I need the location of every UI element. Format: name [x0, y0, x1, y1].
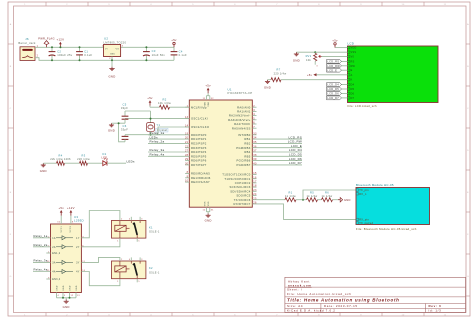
svg-text:RX_pin: RX_pin [359, 218, 369, 221]
svg-text:2A: 2A [52, 246, 56, 249]
svg-text:1k 1/4w: 1k 1/4w [322, 194, 333, 198]
pin RA4/T0CKI (6) U1 [234, 122, 256, 126]
svg-text:RV1: RV1 [306, 54, 312, 58]
pin INT/RB0 (33) U1 [238, 132, 257, 136]
svg-text:RB4: RB4 [244, 150, 250, 154]
svg-text:VDD: VDD [208, 101, 210, 106]
resistor R7 220 1/4w [271, 68, 286, 82]
svg-text:B: B [10, 66, 12, 68]
wire crystal caps ground rail [112, 122, 126, 142]
svg-text:+5v: +5v [58, 206, 64, 210]
pin RD7/PSP7 (30) U1 [185, 163, 207, 167]
driver U3 L293D body [51, 215, 84, 293]
svg-text:C5: C5 [123, 103, 127, 107]
resistor R6 1k 1/4w [322, 190, 333, 201]
svg-text:R3: R3 [82, 153, 86, 157]
wire GND to R4 [43, 162, 56, 164]
svg-text:C4: C4 [179, 49, 183, 53]
capacitor C4 0.1uF [171, 47, 187, 60]
svg-text:L293D: L293D [74, 219, 84, 223]
op-amp U1 PIC16F877A-I/P body [189, 87, 252, 207]
svg-text:PIC16F877A-I/P: PIC16F877A-I/P [228, 91, 253, 95]
pin RD5/PSP5 (28) U1 [148, 153, 207, 159]
pin 3Y (11) U3 [76, 261, 86, 265]
ground GND below U3 [63, 300, 70, 310]
svg-text:33pF: 33pF [121, 106, 128, 110]
pin PGM/RB3 (36) U1 [236, 144, 302, 150]
svg-text:D7: D7 [351, 97, 355, 100]
svg-text:D4: D4 [351, 84, 355, 87]
power +12V above U3 [67, 206, 75, 216]
svg-text:TX_pin: TX_pin [359, 189, 369, 192]
svg-text:U2: U2 [104, 37, 108, 41]
capacitor C5 33pF [121, 103, 129, 124]
global label LCD_RW at LCD [327, 64, 348, 68]
svg-text:+5v: +5v [171, 38, 177, 42]
wire +12V top rail [35, 46, 104, 48]
svg-text:3: 3 [141, 259, 142, 261]
svg-text:Date: 2023-07-15: Date: 2023-07-15 [324, 304, 358, 308]
pin RA5/AN4/SS (7) U1 [232, 126, 257, 130]
resistor R2 10k 1/4w [158, 98, 171, 110]
svg-text:RD3/PSP3: RD3/PSP3 [191, 146, 207, 150]
junction dots C1 [79, 46, 81, 61]
wire D1 to label [107, 162, 126, 164]
svg-text:Relay_4a: Relay_4a [150, 153, 165, 157]
pin 2A (7) U3 [33, 243, 56, 249]
svg-text:10: 10 [402, 315, 405, 317]
svg-text:LCD_RS: LCD_RS [327, 60, 339, 64]
capacitor C2 100uF 25v [49, 47, 73, 60]
pin RB1 (34) U1 [244, 135, 302, 141]
pin RE2/CS/AN7 (10) U1 [185, 180, 210, 184]
svg-text:SDI/SDA/RC4: SDI/SDA/RC4 [230, 189, 251, 193]
svg-text:GND: GND [205, 219, 212, 223]
svg-text:G: G [10, 276, 12, 278]
wire R7 to LCD K pin [281, 79, 348, 81]
ground GND below U1 [205, 214, 212, 223]
svg-text:RA2/AN2/Vref-: RA2/AN2/Vref- [229, 114, 251, 118]
svg-text:A: A [467, 23, 469, 26]
svg-text:RA0/AN0: RA0/AN0 [237, 105, 251, 109]
svg-text:File: Home Automation.kicad_sc: File: Home Automation.kicad_sch [287, 292, 352, 296]
wire U2 GND pin [111, 57, 113, 67]
svg-text:1k 1/4w: 1k 1/4w [307, 194, 318, 198]
power +5v above U1 [205, 84, 211, 94]
svg-text:C3: C3 [152, 49, 156, 53]
svg-text:T1OSI/CCP2/RC1: T1OSI/CCP2/RC1 [224, 177, 250, 181]
power flag PWR_FLAG [38, 37, 55, 48]
svg-text:SCK/SCL/RC3: SCK/SCL/RC3 [229, 185, 250, 189]
pin OSC1/CLKI (13) U1 [185, 116, 208, 120]
svg-text:RX_n: RX_n [359, 193, 367, 196]
svg-text:PWR_FLAG: PWR_FLAG [38, 37, 55, 41]
svg-text:+5v: +5v [147, 96, 153, 100]
wire GND to R7 [268, 79, 272, 81]
relay K1 G5LE-1 [112, 217, 160, 243]
resistor R3 220 1/4w [77, 153, 90, 165]
svg-text:VSS: VSS [351, 51, 357, 54]
svg-text:VDD: VDD [351, 47, 357, 50]
svg-text:GND: GND [69, 285, 71, 291]
title block [285, 277, 466, 312]
svg-text:OSC1/CLKI: OSC1/CLKI [191, 117, 208, 121]
wire +5v to R2 [150, 106, 160, 107]
svg-text:RB2: RB2 [244, 141, 250, 145]
global label LCD_D5 at LCD [327, 87, 348, 91]
svg-text:2: 2 [121, 259, 122, 261]
svg-text:+5v: +5v [205, 84, 211, 88]
svg-text:RX/DT/RC7: RX/DT/RC7 [234, 202, 251, 206]
svg-text:Relay_2a: Relay_2a [34, 243, 48, 247]
wire U3 2Y to K1 coil bottom [81, 238, 120, 247]
junction dots C3 [145, 46, 147, 61]
svg-text:Relay_2a: Relay_2a [150, 140, 165, 144]
wire R5 to R6 [318, 199, 322, 201]
svg-text:C: C [10, 108, 12, 110]
svg-text:LCD_D6: LCD_D6 [327, 92, 339, 96]
svg-text:LCD_D5: LCD_D5 [327, 87, 339, 91]
pin 1A (2) U3 [33, 234, 56, 240]
svg-text:GND: GND [264, 85, 271, 89]
svg-text:4A: 4A [52, 271, 56, 274]
wire RV1 wiper to LCD V0 [322, 55, 348, 57]
svg-text:10k: 10k [306, 58, 311, 62]
svg-text:1: 1 [117, 281, 118, 283]
wire U3 4Y to K2 coil bottom [81, 272, 120, 286]
relay K2 G5LE-1 [112, 257, 160, 283]
pin 4A (15) U3 [33, 268, 56, 274]
svg-text:10uF 50v: 10uF 50v [152, 53, 166, 57]
ground GND for LED chain [40, 163, 47, 173]
svg-text:D: D [10, 150, 12, 152]
svg-text:RE0/RD/AN5: RE0/RD/AN5 [191, 172, 210, 176]
svg-text:RD7/PSP7: RD7/PSP7 [191, 163, 207, 167]
pin EN1,2 (1) U3 [46, 252, 60, 256]
svg-text:LM7805_TO220: LM7805_TO220 [104, 40, 127, 44]
svg-text:1: 1 [117, 240, 118, 242]
svg-text:D: D [467, 150, 469, 152]
svg-text:5: 5 [138, 281, 139, 283]
svg-text:RD5/PSP5: RD5/PSP5 [191, 154, 207, 158]
pin PGD/RB7 (40) U1 [237, 161, 302, 167]
pin 4Y (14) U3 [76, 270, 86, 274]
ground GND for R7 [264, 80, 271, 90]
capacitor C6 33pF [121, 124, 129, 142]
global label LCD_RS at LCD [327, 60, 348, 64]
svg-text:+5v: +5v [307, 73, 313, 77]
resistor R4 22k 1/4w [50, 153, 71, 165]
svg-text:Size: A4: Size: A4 [287, 304, 303, 308]
sheet LCD [348, 41, 439, 108]
global label LCD_D6 at LCD [327, 92, 348, 96]
wire OSC2 net [125, 127, 189, 136]
svg-text:0.1uF: 0.1uF [84, 53, 92, 57]
svg-text:Relay_3a: Relay_3a [34, 259, 48, 263]
net label LEDs [127, 159, 135, 163]
svg-text:VCC2: VCC2 [70, 225, 72, 232]
svg-text:GND: GND [63, 305, 70, 309]
pin 2Y (6) U3 [76, 245, 84, 249]
potentiometer RV1 10k [306, 52, 322, 67]
svg-text:SDO/RC5: SDO/RC5 [236, 194, 250, 198]
svg-text:Relay_4a: Relay_4a [34, 268, 48, 272]
svg-text:2Y: 2Y [76, 246, 80, 249]
svg-text:Id: 1/3: Id: 1/3 [429, 309, 442, 313]
pin RE0/RD/AN5 (8) U1 [185, 171, 210, 175]
svg-text:G5LE-1: G5LE-1 [149, 230, 160, 234]
svg-text:RW: RW [351, 65, 356, 68]
pin RA0/AN0 (2) U1 [237, 105, 256, 109]
svg-text:R4: R4 [59, 153, 63, 157]
svg-text:GND: GND [108, 75, 115, 79]
svg-text:GND: GND [56, 285, 58, 291]
svg-text:B: B [467, 66, 469, 68]
svg-text:RD1/PSP1: RD1/PSP1 [191, 137, 207, 141]
power +5v above U3 [58, 206, 64, 216]
svg-text:RB5: RB5 [244, 154, 250, 158]
svg-text:22k 1/4w 1206: 22k 1/4w 1206 [50, 157, 71, 161]
pin MCLR/Vpp (1) U1 [185, 105, 207, 109]
wire U3 VCC pins [57, 216, 74, 224]
pin SCK/SCL/RC3 (18) U1 [229, 185, 256, 189]
pin RB4 (37) U1 [244, 148, 302, 154]
svg-text:RD0/PSP0: RD0/PSP0 [191, 133, 207, 137]
svg-text:LCD_E: LCD_E [327, 68, 337, 72]
svg-text:EN3,4: EN3,4 [52, 278, 60, 281]
pin T1OSO/T1CKI/RC0 (15) U1 [222, 172, 257, 176]
resistor R5 1k 1/4w [307, 190, 318, 201]
svg-text:PGM/RB3: PGM/RB3 [236, 146, 251, 150]
resistor R1 1k 1/4w [285, 190, 296, 201]
svg-text:RE1/WR/AN6: RE1/WR/AN6 [191, 176, 211, 180]
svg-text:LEDs: LEDs [127, 159, 135, 163]
svg-text:E: E [467, 192, 469, 194]
svg-text:E: E [10, 192, 12, 194]
wire divider tap to HC-05 TX [303, 190, 356, 200]
svg-text:0.1uF: 0.1uF [179, 53, 187, 57]
capacitor C1 0.1uF [76, 47, 92, 60]
global label LCD_D7 at LCD [327, 96, 348, 100]
svg-text:3A: 3A [52, 261, 56, 264]
svg-text:MCLR/Vpp: MCLR/Vpp [191, 105, 207, 109]
svg-text:VCC1: VCC1 [61, 225, 63, 232]
pin RD6/PSP6 (29) U1 [185, 158, 207, 162]
pin PGC/RB6 (39) U1 [237, 157, 302, 163]
crystal Y1 [147, 123, 168, 133]
svg-text:100uF 25v: 100uF 25v [57, 53, 73, 57]
pin VSS bottom pins U1 [203, 201, 215, 214]
wire R3 to D1 [88, 162, 103, 164]
svg-text:220 1/4w: 220 1/4w [77, 157, 90, 161]
pin RA1/AN1 (3) U1 [237, 109, 256, 113]
pin RA2/AN2/Vref- (4) U1 [229, 113, 257, 117]
svg-text:D5: D5 [351, 88, 355, 91]
svg-text:10k 1/4w: 10k 1/4w [158, 101, 171, 105]
svg-text:PGD/RB7: PGD/RB7 [237, 163, 251, 167]
wire U3 3Y to K2 coil top [81, 257, 120, 262]
svg-text:RS: RS [351, 60, 355, 63]
pin RD4/PSP4 (27) U1 [148, 148, 207, 154]
svg-text:GND: GND [344, 198, 351, 202]
svg-text:4Y: 4Y [76, 271, 80, 274]
ground GND right of R6 [338, 198, 351, 202]
svg-text:RE2/CS/AN7: RE2/CS/AN7 [191, 180, 210, 184]
svg-text:R7: R7 [277, 68, 281, 72]
svg-text:VSS: VSS [205, 201, 207, 206]
pin RD1/PSP1 (20) U1 [148, 135, 207, 141]
wire U3 1Y to K1 coil top [81, 211, 120, 238]
power +5v for MCLR pullup [147, 96, 153, 106]
svg-text:K2: K2 [149, 266, 153, 270]
svg-text:C2: C2 [57, 49, 61, 53]
pin EN3,4 (9) U3 [46, 278, 60, 282]
wire +5v to LCD VDD [335, 47, 348, 49]
svg-text:1k 1/4w: 1k 1/4w [285, 194, 296, 198]
connector J6 Barrel_Jack [18, 37, 38, 60]
wire OSC1 net [125, 111, 189, 123]
svg-text:GND: GND [108, 129, 115, 133]
svg-text:KiCad E.D.A. kicad 7.0.2: KiCad E.D.A. kicad 7.0.2 [287, 309, 336, 313]
svg-text:1Y: 1Y [76, 237, 80, 240]
pin VDD top pins U1 [203, 93, 215, 106]
svg-text:Relay_1a: Relay_1a [34, 234, 48, 238]
svg-text:RA1/AN1: RA1/AN1 [237, 109, 251, 113]
svg-text:D6: D6 [351, 92, 355, 95]
pin T1OSI/CCP2/RC1 (16) U1 [224, 176, 257, 180]
pin RD3/PSP3 (22) U1 [185, 145, 207, 149]
svg-text:CCP1/RC2: CCP1/RC2 [235, 181, 251, 185]
svg-text:R1: R1 [289, 190, 293, 194]
pin CCP1/RC2 (17) U1 [235, 181, 257, 185]
svg-text:3: 3 [141, 218, 142, 220]
pin RB5 (38) U1 [244, 153, 302, 159]
svg-text:11: 11 [444, 315, 447, 317]
svg-text:R2: R2 [163, 98, 167, 102]
svg-text:VI: VI [105, 48, 108, 50]
svg-text:K: K [351, 79, 353, 82]
svg-text:5: 5 [138, 240, 139, 242]
power +5v output [171, 38, 177, 47]
svg-text:OSC2/CLKO: OSC2/CLKO [191, 125, 209, 129]
svg-text:LED: LED [102, 155, 108, 159]
pin SDO/RC5 (24) U1 [236, 193, 257, 197]
svg-text:File: Bluetooth Module HC-05.k: File: Bluetooth Module HC-05.kicad_sch [356, 227, 417, 231]
svg-text:GND: GND [40, 169, 47, 173]
power +5v for LCD VDD [332, 38, 338, 47]
junction dots C2 [51, 46, 53, 61]
svg-text:LCD_D4: LCD_D4 [327, 83, 339, 87]
svg-text:Barrel_Jack: Barrel_Jack [18, 41, 36, 45]
pin TX/CK/RC6 (25) U1 [234, 197, 285, 201]
svg-text:T1OSO/T1CKI/RC0: T1OSO/T1CKI/RC0 [222, 173, 251, 177]
power +5v arrow for LCD backlight A [307, 73, 317, 77]
svg-text:GND: GND [293, 59, 300, 63]
svg-text:R6: R6 [325, 190, 329, 194]
svg-text:R5: R5 [310, 190, 314, 194]
svg-text:PGC/RB6: PGC/RB6 [237, 159, 251, 163]
svg-text:E: E [351, 69, 353, 72]
pin SDI/SDA/RC4 (23) U1 [230, 189, 257, 193]
svg-text:RD4/PSP4: RD4/PSP4 [191, 150, 207, 154]
svg-text:C6: C6 [123, 124, 127, 128]
svg-text:LCD: LCD [348, 41, 355, 45]
svg-text:RD6/PSP6: RD6/PSP6 [191, 159, 207, 163]
svg-text:V0: V0 [351, 56, 355, 59]
svg-text:10: 10 [402, 4, 405, 6]
svg-text:33pF: 33pF [121, 128, 128, 132]
svg-text:RA5/AN4/SS: RA5/AN4/SS [232, 126, 251, 130]
pin RE1/WR/AN6 (9) U1 [185, 175, 211, 179]
svg-text:LCD_D7: LCD_D7 [327, 96, 339, 100]
svg-text:4: 4 [129, 259, 130, 261]
wire R1 to junction [296, 199, 307, 201]
svg-text:TX_paired: TX_paired [359, 222, 373, 225]
LED D1 [102, 152, 108, 165]
wire GND to LCD VSS [296, 51, 347, 53]
pin 1Y (3) U3 [76, 236, 84, 240]
svg-text:GND: GND [76, 285, 78, 291]
svg-text:4: 4 [129, 218, 130, 220]
pin OSC2/CLKO (14) U1 [185, 125, 209, 129]
sheet Bluetooth Module HC-05 [356, 183, 430, 231]
wire +5v to LCD A pin [317, 74, 348, 76]
wire +5V top rail [121, 46, 174, 48]
svg-text:RA3/AN3/Vref+: RA3/AN3/Vref+ [228, 118, 251, 122]
wire U3 ground pins [57, 293, 81, 300]
svg-text:GND: GND [110, 54, 116, 56]
svg-text:J6: J6 [25, 37, 29, 41]
regulator U2 LM7805_TO220 [102, 37, 127, 60]
svg-text:INT/RB0: INT/RB0 [238, 133, 251, 137]
pin RB2 (35) U1 [244, 140, 302, 146]
svg-text:Rev: 0: Rev: 0 [429, 304, 442, 308]
pin RX/DT/RC7 (26) U1 [234, 202, 356, 220]
svg-text:2: 2 [121, 218, 122, 220]
svg-text:G: G [467, 276, 469, 278]
ground GND below U2 [108, 67, 115, 79]
svg-text:1A: 1A [52, 237, 56, 240]
wire R2 to MCLR pin1 [170, 106, 190, 108]
svg-text:+5v: +5v [332, 38, 338, 42]
svg-text:C1: C1 [84, 49, 88, 53]
global label LCD_E at LCD [327, 68, 348, 72]
svg-text:RA4/T0CKI: RA4/T0CKI [234, 122, 250, 126]
svg-text:G5LE-1: G5LE-1 [149, 270, 160, 274]
svg-text:C: C [467, 108, 469, 110]
pin RA3/AN3/Vref+ (5) U1 [228, 117, 256, 121]
svg-text:VSS: VSS [208, 201, 210, 206]
ground GND for LCD VSS [293, 52, 300, 62]
svg-text:K1: K1 [149, 225, 153, 229]
global label LCD_D4 at LCD [327, 83, 348, 87]
svg-text:File: LCD.kicad_sch: File: LCD.kicad_sch [348, 104, 377, 108]
svg-text:RD2/PSP2: RD2/PSP2 [191, 141, 207, 145]
power +12V [57, 38, 65, 49]
svg-text:Bluetooth Module HC-05: Bluetooth Module HC-05 [356, 183, 394, 187]
buffer symbols inside U3 [56, 236, 73, 274]
svg-text:3Y: 3Y [76, 261, 80, 264]
wire R4 to R3 [65, 162, 80, 164]
svg-text:+12V: +12V [67, 206, 75, 210]
svg-text:LCD_RW: LCD_RW [327, 64, 340, 68]
svg-text:11: 11 [444, 4, 447, 6]
svg-text:A: A [10, 23, 12, 26]
pin RD2/PSP2 (21) U1 [148, 140, 207, 146]
ground GND crystal [108, 123, 115, 132]
svg-text:LCD_D7: LCD_D7 [289, 161, 302, 165]
svg-text:GND: GND [63, 285, 65, 291]
